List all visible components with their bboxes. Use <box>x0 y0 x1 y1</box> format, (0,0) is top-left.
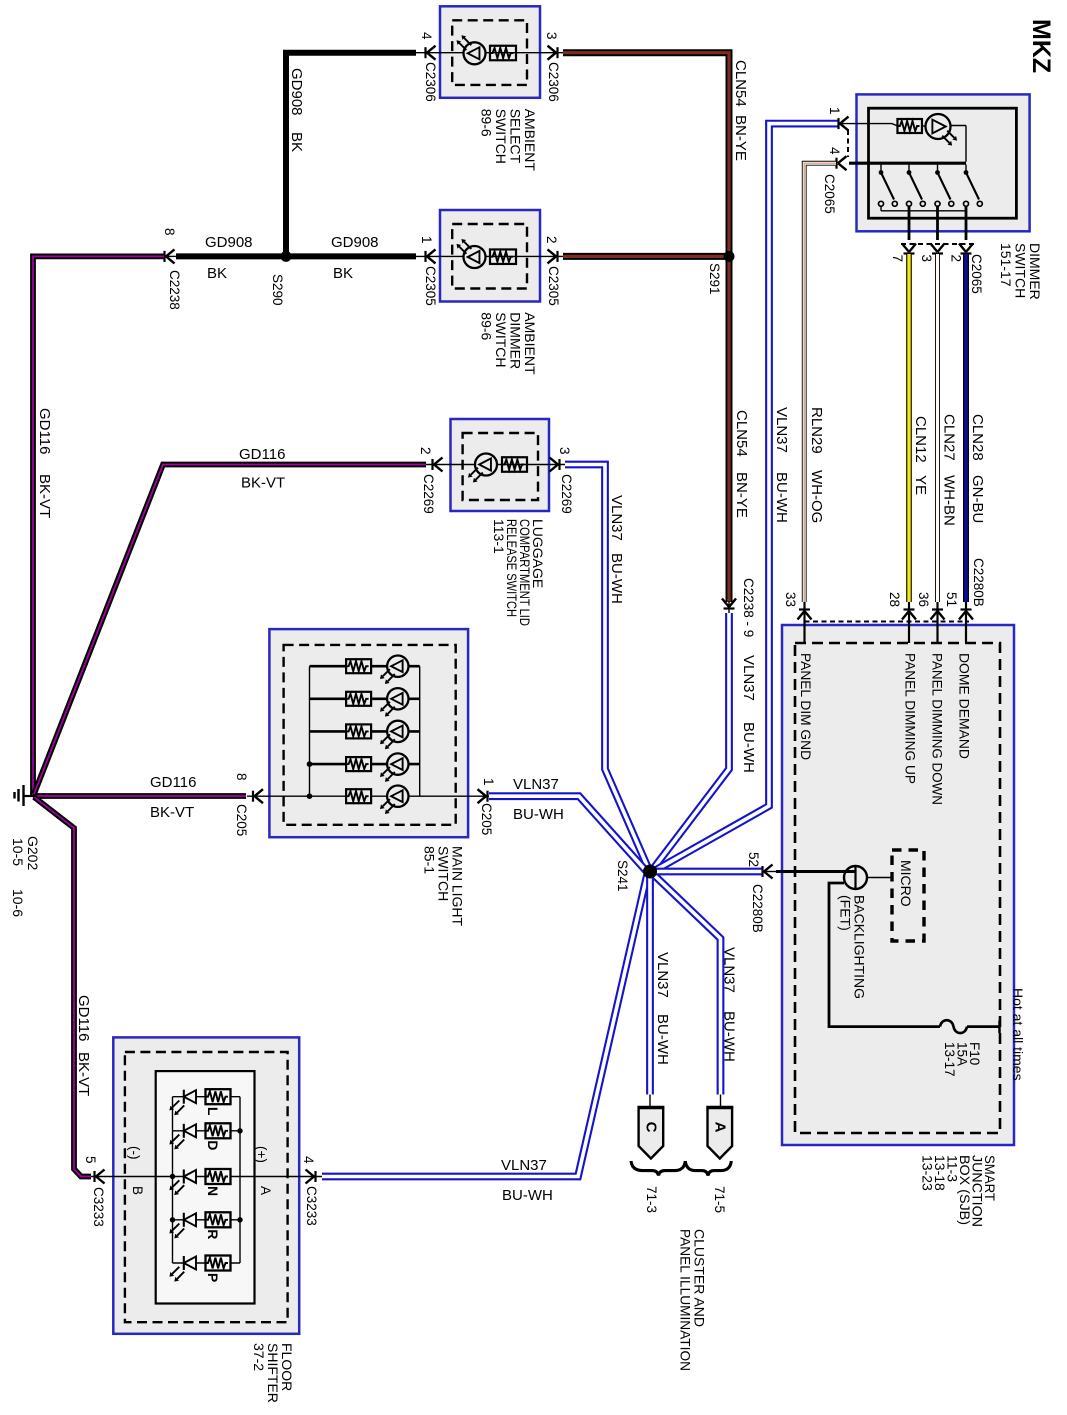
svg-text:4: 4 <box>827 147 842 155</box>
svg-text:D: D <box>205 1140 221 1150</box>
svg-text:10-5: 10-5 <box>10 838 26 866</box>
svg-text:BK-VT: BK-VT <box>36 474 53 518</box>
splice S290 <box>281 251 292 262</box>
svg-text:C205: C205 <box>479 803 494 835</box>
lamp, ambient select switch <box>464 42 486 64</box>
wire CLN54 BN-YE from S291 to C2305 pin 2 <box>563 253 729 260</box>
svg-text:51: 51 <box>944 592 959 607</box>
svg-text:RLN29: RLN29 <box>808 407 825 454</box>
floor shifter row R wiring <box>173 1219 241 1221</box>
svg-text:C2305: C2305 <box>546 266 561 306</box>
wire VLN37 BU-WH from C3233 pin 4 to splice S241 <box>322 875 647 1177</box>
svg-text:WH-BN: WH-BN <box>941 475 958 526</box>
svg-text:85-1: 85-1 <box>421 846 437 874</box>
wire fuse to hot at all times <box>967 1025 1000 1028</box>
svg-text:(-): (-) <box>127 1146 142 1160</box>
svg-text:YE: YE <box>912 475 929 495</box>
svg-text:C2238: C2238 <box>167 270 182 310</box>
connector C2280B pin 33 arrow <box>798 610 812 620</box>
floor shifter right bus <box>239 1097 241 1263</box>
dimmer switch bottom bus <box>881 210 966 212</box>
svg-text:13-23: 13-23 <box>920 1155 936 1191</box>
SJB pin 28 stub <box>908 602 910 643</box>
dimmer switch pin 4 internal bus <box>849 162 966 165</box>
svg-text:BN-YE: BN-YE <box>733 472 750 518</box>
wire CLN12 YE dimmer pin 7 to SJB pin 28 <box>906 254 912 602</box>
fuse F10 15A <box>940 1020 967 1033</box>
svg-text:GD116: GD116 <box>75 995 92 1041</box>
svg-text:BK: BK <box>333 265 353 282</box>
svg-text:S291: S291 <box>707 263 722 295</box>
svg-text:2: 2 <box>949 255 964 263</box>
connector C3233 pin 4 arrow <box>306 1170 316 1184</box>
wire GD908 BK from C2238 to S290 to C2305 pin 1 <box>176 253 416 259</box>
lamp, luggage switch <box>475 454 497 476</box>
svg-text:71-3: 71-3 <box>644 1186 659 1213</box>
svg-text:MKZ: MKZ <box>1027 19 1055 73</box>
wire GD116 BK-VT ground down to C3233 pin 5 <box>34 797 91 1177</box>
main light switch left bus <box>309 666 311 796</box>
lamp, main light switch row 4 <box>387 753 408 774</box>
smart junction box (SJB) outer box <box>782 625 1014 1145</box>
brace under connector A <box>685 1161 731 1176</box>
svg-text:(FET): (FET) <box>838 895 854 931</box>
dimmer switch box (151-17) <box>857 94 1030 231</box>
svg-text:PANEL ILLUMINATION: PANEL ILLUMINATION <box>678 1229 694 1371</box>
main light switch right bus <box>419 666 421 796</box>
resistor, main light switch row 2 <box>346 692 371 706</box>
dimmer switch output drops <box>909 206 966 240</box>
connector C2280B pin 51 arrow <box>959 610 973 620</box>
svg-text:113-1: 113-1 <box>491 519 507 554</box>
svg-text:C: C <box>642 1122 659 1133</box>
svg-text:GD908: GD908 <box>288 68 305 116</box>
svg-text:R: R <box>205 1229 221 1239</box>
svg-text:10-6: 10-6 <box>10 889 26 917</box>
svg-text:C2306: C2306 <box>546 62 561 102</box>
main light switch row 3 wiring <box>310 730 420 733</box>
connector C2269 pin 3 arrow <box>550 458 560 472</box>
svg-text:BK: BK <box>207 265 227 282</box>
svg-text:33: 33 <box>783 592 798 607</box>
svg-text:PANEL DIMMING UP: PANEL DIMMING UP <box>903 653 918 784</box>
lamp, main light switch row 3 <box>387 721 408 742</box>
ambient dimmer switch box (89-6) <box>440 210 540 302</box>
svg-text:C2269: C2269 <box>421 474 436 514</box>
resistor, luggage switch <box>502 457 527 472</box>
connector C2280B pin 36 arrow <box>931 610 945 620</box>
floor shifter row D wiring <box>173 1130 241 1132</box>
connector C2269 pin 2 arrow <box>433 458 443 472</box>
wire VLN37 BU-WH from S241 down to cluster connector C <box>646 874 654 1095</box>
svg-text:VLN37: VLN37 <box>654 952 671 998</box>
dimmer switch gang 4 <box>965 165 967 172</box>
svg-text:PANEL DIMMING DOWN: PANEL DIMMING DOWN <box>930 653 945 805</box>
wire through ambient dimmer switch <box>415 255 564 257</box>
svg-text:BU-WH: BU-WH <box>654 1014 671 1065</box>
svg-text:VLN37: VLN37 <box>608 495 625 541</box>
svg-text:4: 4 <box>419 32 434 40</box>
smart junction box dashed inner box <box>795 643 1000 1133</box>
ground symbol G202 <box>24 795 36 797</box>
svg-text:N: N <box>205 1186 221 1196</box>
floor shifter left bus <box>172 1097 174 1263</box>
main light switch row 5 through wire <box>247 795 490 797</box>
svg-text:B: B <box>130 1186 145 1195</box>
luggage compartment lid release switch box (113-1) <box>451 419 550 511</box>
wire CLN28 GN-BU dimmer pin 2 to SJB pin 51 <box>963 254 969 602</box>
main light switch row 4 wiring <box>310 763 420 766</box>
svg-text:C205: C205 <box>234 804 249 836</box>
svg-text:2: 2 <box>544 236 559 244</box>
lamp, main light switch row 1 <box>387 656 408 677</box>
resistor, main light switch row 5 <box>346 789 371 803</box>
LED, floor shifter row L <box>183 1090 185 1104</box>
connector C2065 pin 2 arrow <box>959 244 973 254</box>
connector C2306 pin 4 arrow <box>426 46 436 60</box>
svg-text:CLN54: CLN54 <box>733 410 750 457</box>
resistor, floor shifter row D <box>206 1123 231 1138</box>
stub to connector A <box>720 1095 722 1109</box>
svg-text:1: 1 <box>481 778 496 786</box>
svg-text:8: 8 <box>234 773 249 781</box>
svg-text:C2065: C2065 <box>822 174 837 214</box>
wire GD116 BK-VT from C2238 left and down left edge to ground <box>33 256 164 796</box>
svg-text:GD116: GD116 <box>239 446 285 463</box>
svg-text:BU-WH: BU-WH <box>773 472 790 523</box>
svg-text:G202: G202 <box>25 836 41 870</box>
LED, floor shifter row D <box>183 1124 185 1138</box>
svg-text:BN-YE: BN-YE <box>732 115 749 161</box>
lamp, main light switch row 5 <box>387 786 408 807</box>
svg-text:5: 5 <box>83 1156 98 1164</box>
dimmer switch gang 3 <box>937 165 939 172</box>
wire through ambient select switch <box>415 52 564 54</box>
SJB pin 52 stub and internal wire to FET <box>776 870 855 873</box>
resistor, floor shifter row R <box>206 1212 231 1227</box>
floor shifter box (37-2) <box>113 1037 299 1333</box>
dimmer switch gang 2 <box>908 165 910 172</box>
svg-text:GD908: GD908 <box>331 234 379 251</box>
wire RLN29 WH-OG dimmer pin 4 to SJB pin 33 <box>804 163 836 602</box>
connector C2065 dashed link left <box>847 130 849 157</box>
svg-text:(+): (+) <box>254 1146 269 1163</box>
svg-text:1: 1 <box>827 107 842 115</box>
connector C2306 pin 3 arrow <box>548 46 558 60</box>
resistor, main light switch row 3 <box>346 724 371 738</box>
svg-text:71-5: 71-5 <box>712 1186 727 1213</box>
svg-text:A: A <box>258 1186 273 1195</box>
svg-text:WH-OG: WH-OG <box>808 470 825 523</box>
junction dot left bus row 4 <box>307 761 313 767</box>
floor shifter row N through wire <box>91 1176 323 1178</box>
junction dot floor right bus D <box>237 1128 242 1133</box>
floor shifter inner rectangle <box>156 1071 255 1303</box>
svg-text:52: 52 <box>746 852 761 867</box>
splice S241 <box>643 865 657 879</box>
svg-text:BK-VT: BK-VT <box>75 1052 92 1096</box>
junction dot floor left bus R <box>170 1217 175 1222</box>
svg-text:VLN37: VLN37 <box>501 1157 547 1174</box>
svg-text:BK-VT: BK-VT <box>150 804 194 821</box>
svg-text:VLN37: VLN37 <box>740 655 757 701</box>
svg-text:C3233: C3233 <box>304 1186 319 1226</box>
svg-text:BU-WH: BU-WH <box>608 553 625 604</box>
svg-text:4: 4 <box>301 1156 316 1164</box>
wire CLN54 BN-YE from C2306 pin 3 down to C2238 pin 9 <box>563 53 729 602</box>
svg-text:37-2: 37-2 <box>251 1343 267 1371</box>
svg-text:C3233: C3233 <box>91 1187 106 1227</box>
junction dot floor left bus N <box>170 1174 175 1179</box>
svg-text:C2065: C2065 <box>969 254 984 294</box>
resistor, ambient select switch <box>490 46 516 61</box>
wire GD116 BK-VT ground diagonal up to C2269 pin 2 <box>34 465 426 795</box>
svg-text:BU-WH: BU-WH <box>721 1011 738 1062</box>
svg-text:BK: BK <box>288 132 305 152</box>
svg-text:2: 2 <box>418 447 433 455</box>
svg-text:1: 1 <box>419 236 434 244</box>
svg-text:VLN37: VLN37 <box>721 947 738 993</box>
main light switch row 1 wiring <box>310 665 420 668</box>
junction dot floor right bus R <box>237 1217 242 1222</box>
wire VLN37 BU-WH from C2269 pin 3 down to splice S241 <box>565 465 649 871</box>
connector C2065 dashed link bottom <box>901 243 974 245</box>
wire VLN37 BU-WH from S241 down to cluster connector A <box>653 874 721 1095</box>
svg-text:GD116: GD116 <box>150 774 196 791</box>
resistor, dimmer switch <box>897 119 922 133</box>
svg-text:C2269: C2269 <box>559 474 574 514</box>
floor shifter row L wiring <box>173 1096 241 1098</box>
svg-text:36: 36 <box>916 592 931 607</box>
svg-text:GD116: GD116 <box>36 408 53 454</box>
LED, floor shifter row R <box>183 1213 185 1227</box>
svg-text:C2305: C2305 <box>423 266 438 306</box>
stub to connector C <box>649 1095 651 1109</box>
svg-text:BK-VT: BK-VT <box>241 475 285 492</box>
LED, floor shifter row N <box>183 1170 185 1184</box>
svg-text:S241: S241 <box>615 860 630 892</box>
dimmer switch pin 1 internal wire <box>839 124 898 126</box>
cluster connector A <box>708 1108 733 1159</box>
connector C2238 pin 9 arrow <box>722 599 736 609</box>
svg-text:89-6: 89-6 <box>478 312 494 340</box>
svg-text:CLN12: CLN12 <box>912 416 929 463</box>
backlighting FET symbol <box>844 866 867 889</box>
wire GD908 BK from S290 up to C2306 pin 4 <box>286 53 416 260</box>
svg-text:7: 7 <box>890 255 905 263</box>
lamp, dimmer switch <box>926 114 951 139</box>
wire FET down to fuse F10 <box>829 883 940 1027</box>
svg-text:151-17: 151-17 <box>998 243 1014 287</box>
svg-text:13-17: 13-17 <box>942 1042 957 1077</box>
MICRO dashed box <box>892 850 924 941</box>
dimmer switch gang 1 <box>880 165 882 172</box>
connector C2280B pin 52 arrow <box>763 865 773 879</box>
lamp, main light switch row 2 <box>387 688 408 709</box>
svg-text:Hot at all times: Hot at all times <box>1010 988 1026 1081</box>
svg-text:S290: S290 <box>270 274 285 306</box>
svg-text:VLN37: VLN37 <box>513 776 559 793</box>
resistor, floor shifter row P <box>206 1256 231 1271</box>
svg-text:C2306: C2306 <box>423 62 438 102</box>
svg-text:VLN37: VLN37 <box>773 407 790 453</box>
svg-text:GD908: GD908 <box>205 234 253 251</box>
svg-text:CLN27: CLN27 <box>941 414 958 461</box>
wire through luggage switch <box>426 464 565 466</box>
svg-text:3: 3 <box>919 255 934 263</box>
ambient select switch box (89-6) <box>440 6 540 98</box>
svg-text:GN-BU: GN-BU <box>969 475 986 523</box>
dimmer switch inner rectangle <box>869 108 1017 218</box>
svg-text:3: 3 <box>557 447 572 455</box>
main light switch row 2 wiring <box>310 697 420 700</box>
wire VLN37 BU-WH from S241 to SJB pin 52 <box>655 868 762 876</box>
svg-text:28: 28 <box>887 592 902 607</box>
connector C205 pin 8 arrow <box>253 789 263 803</box>
svg-text:CLN28: CLN28 <box>969 414 986 461</box>
LED, floor shifter row P <box>183 1256 185 1270</box>
svg-text:BU-WH: BU-WH <box>502 1187 553 1204</box>
svg-text:BU-WH: BU-WH <box>740 722 757 773</box>
wire VLN37 BU-WH from dimmer switch pin 1 down to splice S241 <box>654 124 839 871</box>
resistor, floor shifter row L <box>206 1089 231 1104</box>
connector C2065 pin 3 arrow <box>931 244 945 254</box>
connector C3233 pin 5 arrow <box>95 1170 105 1184</box>
brace under connector C <box>631 1161 685 1176</box>
svg-text:MICRO: MICRO <box>898 860 914 907</box>
wire GD116 BK-VT ground to C205 pin 8 <box>33 793 246 799</box>
splice S291 <box>724 251 735 262</box>
svg-text:C2238 - 9: C2238 - 9 <box>741 578 756 637</box>
svg-text:8: 8 <box>162 228 177 236</box>
connector C2305 pin 2 arrow <box>548 249 558 263</box>
SJB pin 36 stub <box>936 602 938 643</box>
resistor, ambient dimmer switch <box>490 249 516 264</box>
resistor, floor shifter row N <box>206 1169 231 1184</box>
wire FET to MICRO <box>867 877 892 879</box>
main light switch box (85-1) <box>269 629 468 837</box>
connector C2238 pin 8 arrow <box>165 249 175 263</box>
svg-text:CLN54: CLN54 <box>732 60 749 107</box>
svg-text:A: A <box>711 1122 728 1133</box>
cluster connector C <box>639 1108 664 1159</box>
wire VLN37 BU-WH from C2238 pin 9 down to splice S241 <box>653 613 729 869</box>
wire VLN37 BU-WH from C205 pin 1 to splice S241 <box>489 796 648 873</box>
connector C2305 pin 1 arrow <box>426 249 436 263</box>
svg-text:C2280B: C2280B <box>750 884 765 933</box>
svg-text:3: 3 <box>544 32 559 40</box>
svg-text:DOME DEMAND: DOME DEMAND <box>957 653 972 759</box>
connector C2280B dashed link <box>805 621 970 623</box>
svg-text:P: P <box>205 1273 221 1282</box>
connector C205 pin 1 arrow <box>478 789 488 803</box>
connector C2065 pin 7 arrow <box>902 244 916 254</box>
svg-text:C2280B: C2280B <box>971 558 986 607</box>
junction dot left bus row 5 <box>307 793 313 799</box>
connector C2280B pin 28 arrow <box>902 610 916 620</box>
svg-text:89-6: 89-6 <box>478 109 494 137</box>
connector C2065 pin 1 arrow <box>839 117 849 131</box>
SJB pin 51 stub <box>965 602 967 643</box>
svg-text:BU-WH: BU-WH <box>513 806 564 823</box>
resistor, main light switch row 1 <box>346 659 371 673</box>
wire resistor to lamp, dimmer switch <box>922 126 966 162</box>
resistor, main light switch row 4 <box>346 757 371 771</box>
lamp, ambient dimmer switch <box>464 246 486 268</box>
connector C2065 pin 4 arrow <box>837 156 847 170</box>
svg-text:PANEL DIM GND: PANEL DIM GND <box>798 653 813 760</box>
floor shifter row P wiring <box>173 1262 241 1264</box>
wire CLN27 WH-BN dimmer pin 3 to SJB pin 36 <box>935 254 940 602</box>
svg-text:L: L <box>205 1107 221 1116</box>
SJB pin 33 stub <box>803 602 805 643</box>
